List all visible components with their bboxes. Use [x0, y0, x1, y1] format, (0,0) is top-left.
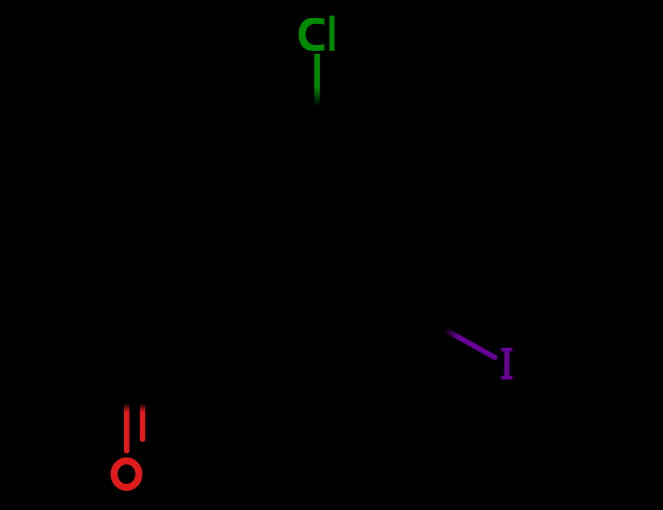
- atom label Cl (chlorine substituent): letter C: [299, 18, 325, 51]
- C=O double bond line 2 (inner, red fading to black at top): [140, 403, 145, 439]
- atom label O (aldehyde oxygen): [114, 461, 139, 488]
- bond C1-Cl (half bond, green fading to black): [314, 54, 320, 107]
- bond C5-I (half bond, purple fading to black): [445, 329, 495, 357]
- atom label I (iodine substituent, serif glyph): [501, 348, 512, 380]
- C=O double bond line 1 (outer, red fading to black at top): [124, 403, 129, 451]
- atom label Cl: letter l: [329, 16, 334, 51]
